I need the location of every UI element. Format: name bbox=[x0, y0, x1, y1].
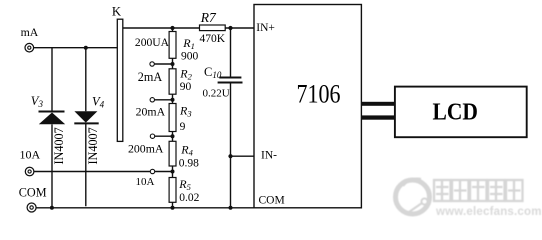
node V4 top junction bbox=[84, 46, 88, 50]
svg-text:www.elecfans.com: www.elecfans.com bbox=[435, 206, 542, 218]
wire tap stub 2mA bbox=[154, 63, 172, 65]
contact circle 2mA bbox=[150, 62, 154, 66]
svg-text:IN-: IN- bbox=[261, 150, 277, 162]
wire COM rail bbox=[36, 207, 254, 209]
resistor R2 bbox=[169, 69, 176, 94]
svg-text:mA: mA bbox=[21, 25, 39, 39]
svg-text:IN4007: IN4007 bbox=[52, 127, 66, 164]
svg-text:7106: 7106 bbox=[297, 81, 341, 109]
wire chain vertical segments bbox=[172, 28, 174, 208]
svg-text:20mA: 20mA bbox=[136, 104, 166, 118]
svg-text:2mA: 2mA bbox=[138, 70, 163, 84]
svg-text:COM: COM bbox=[19, 186, 47, 200]
svg-text:0.02: 0.02 bbox=[179, 192, 199, 204]
diode V3 bbox=[39, 112, 66, 125]
contact circle 10A bbox=[150, 169, 154, 173]
resistor R1 bbox=[169, 32, 176, 59]
bus bar upper bbox=[361, 102, 397, 106]
LCD box bbox=[395, 87, 527, 138]
diode V4 bbox=[74, 111, 98, 123]
watermark logo bbox=[396, 179, 430, 214]
terminal 10A jack bbox=[25, 167, 34, 176]
wire 10A jack to chain bbox=[34, 171, 172, 173]
svg-text:LCD: LCD bbox=[433, 98, 478, 124]
switch K bar bbox=[117, 19, 123, 141]
wire R7 to 7106 IN+ bbox=[225, 27, 254, 29]
svg-text:R7: R7 bbox=[200, 10, 217, 25]
svg-text:10A: 10A bbox=[20, 147, 41, 161]
contact circle 20mA bbox=[150, 98, 154, 102]
svg-text:900: 900 bbox=[181, 50, 199, 62]
svg-text:9: 9 bbox=[180, 121, 186, 133]
bus bar lower bbox=[361, 115, 397, 119]
node tap 2mA junction bbox=[171, 62, 175, 66]
svg-text:10A: 10A bbox=[136, 176, 155, 188]
contact circle 200mA bbox=[150, 134, 154, 138]
svg-text:IN4007: IN4007 bbox=[86, 127, 100, 164]
terminal mA jack bbox=[25, 43, 34, 52]
svg-text:200mA: 200mA bbox=[128, 141, 164, 155]
svg-text:COM: COM bbox=[259, 195, 285, 207]
node R7 right junction bbox=[228, 26, 232, 30]
node tap 20mA junction bbox=[171, 98, 175, 102]
node V3 bottom junction bbox=[50, 206, 54, 210]
terminal COM jack bbox=[27, 203, 36, 212]
node chain top junction bbox=[170, 26, 174, 30]
node C10 bottom junction bbox=[229, 206, 233, 210]
node chain bottom junction bbox=[171, 206, 175, 210]
resistor R3 bbox=[169, 104, 176, 132]
resistor R4 bbox=[169, 141, 176, 166]
watermark chinese text bbox=[434, 180, 523, 201]
wire mA jack to switch bar bbox=[34, 47, 119, 49]
node tap 10A junction bbox=[171, 170, 175, 174]
wire tap stub 200mA bbox=[155, 135, 173, 137]
wire V4 branch bbox=[85, 48, 87, 207]
node IN- junction bbox=[228, 154, 232, 158]
wire C10 branch bbox=[230, 28, 232, 208]
svg-text:90: 90 bbox=[180, 81, 192, 93]
svg-text:200UA: 200UA bbox=[135, 36, 170, 49]
svg-text:K: K bbox=[112, 5, 122, 19]
node tap 200mA junction bbox=[171, 134, 175, 138]
svg-text:0.22U: 0.22U bbox=[203, 88, 230, 100]
svg-text:470K: 470K bbox=[200, 33, 226, 45]
svg-text:IN+: IN+ bbox=[256, 22, 275, 34]
resistor R5 bbox=[169, 178, 176, 203]
resistor R7 bbox=[200, 25, 226, 31]
wire IN- bbox=[231, 155, 255, 157]
capacitor C10 bbox=[218, 78, 243, 83]
svg-text:0.98: 0.98 bbox=[179, 157, 199, 169]
IC 7106 box bbox=[254, 5, 361, 208]
wire top node to R7 bbox=[123, 27, 200, 29]
wire tap stub 20mA bbox=[155, 99, 173, 101]
wire V3 branch bbox=[51, 48, 53, 208]
